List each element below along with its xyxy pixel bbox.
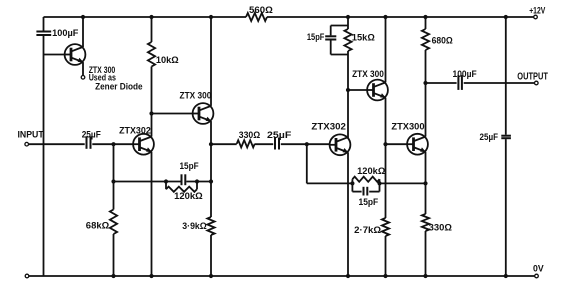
svg-text:15pF: 15pF — [180, 161, 200, 171]
svg-text:ZTX302: ZTX302 — [119, 125, 151, 135]
svg-text:15kΩ: 15kΩ — [352, 33, 375, 43]
svg-text:INPUT: INPUT — [18, 130, 45, 140]
svg-text:ZTX302: ZTX302 — [311, 122, 346, 132]
svg-text:330Ω: 330Ω — [239, 130, 260, 140]
svg-text:15pF: 15pF — [307, 32, 325, 42]
svg-text:+12V: +12V — [529, 6, 545, 16]
svg-text:0V: 0V — [533, 263, 544, 273]
svg-text:ZTX300: ZTX300 — [391, 122, 424, 132]
svg-text:25µF: 25µF — [267, 130, 292, 140]
svg-text:330Ω: 330Ω — [429, 222, 452, 232]
svg-text:120kΩ: 120kΩ — [357, 166, 385, 176]
svg-text:15pF: 15pF — [359, 197, 379, 207]
svg-text:25µF: 25µF — [82, 129, 102, 139]
svg-text:68kΩ: 68kΩ — [86, 220, 109, 230]
svg-text:10kΩ: 10kΩ — [156, 55, 179, 65]
svg-text:120kΩ: 120kΩ — [174, 191, 203, 201]
svg-text:100µF: 100µF — [453, 69, 478, 79]
svg-text:Zener Diode: Zener Diode — [95, 81, 143, 91]
svg-text:OUTPUT: OUTPUT — [517, 72, 548, 83]
svg-text:ZTX 300: ZTX 300 — [352, 69, 384, 79]
svg-text:ZTX 300: ZTX 300 — [180, 90, 212, 100]
svg-text:2·7kΩ: 2·7kΩ — [354, 225, 381, 235]
svg-text:25µF: 25µF — [480, 132, 499, 142]
svg-text:560Ω: 560Ω — [249, 5, 273, 15]
svg-text:3·9kΩ: 3·9kΩ — [182, 221, 207, 231]
svg-text:680Ω: 680Ω — [432, 36, 453, 46]
svg-text:100µF: 100µF — [52, 28, 79, 38]
